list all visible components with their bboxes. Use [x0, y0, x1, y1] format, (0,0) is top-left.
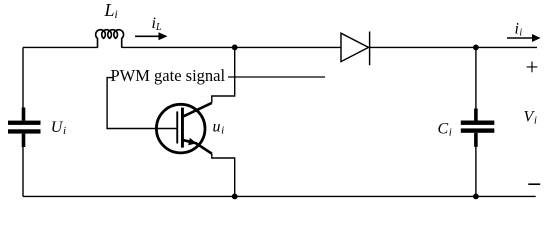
- wire top rail right segment: [370, 46, 537, 48]
- svg-text:PWM gate signal: PWM gate signal: [111, 66, 226, 85]
- wire right rail: [475, 47, 477, 196]
- wire emitter to bottom rail: [212, 154, 235, 197]
- node junction top right: [473, 45, 479, 51]
- wire top rail middle segment: [122, 46, 341, 48]
- capacitor Ci: [461, 109, 495, 147]
- PWM gate signal callout: [107, 77, 325, 129]
- diode D: [341, 32, 370, 66]
- node junction top mid: [232, 45, 238, 51]
- transistor Q (IGBT): [156, 103, 211, 154]
- node junction bottom right: [473, 194, 479, 200]
- current arrow ii: [507, 34, 541, 42]
- capacitor/source Ui: [8, 108, 41, 148]
- node junction bottom mid: [232, 194, 238, 200]
- wire left rail: [22, 47, 24, 196]
- label minus: [528, 183, 540, 185]
- wire top rail left segment: [23, 46, 98, 48]
- current arrow iL: [135, 32, 168, 40]
- wire bottom rail: [23, 195, 536, 197]
- svg-text:+: +: [526, 55, 539, 80]
- wire collector to top rail: [212, 47, 235, 103]
- inductor Li: [96, 30, 124, 48]
